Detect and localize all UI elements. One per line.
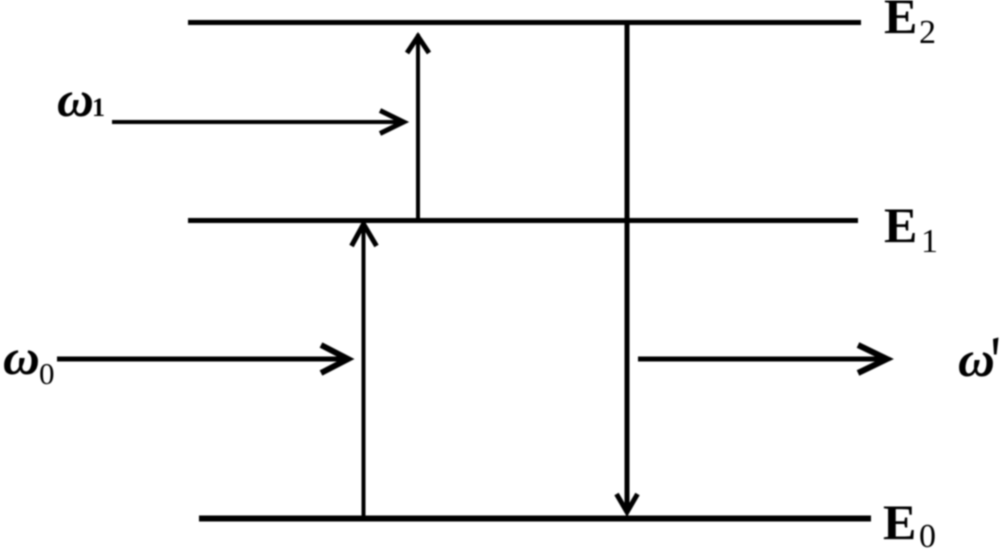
svg-text:1: 1 bbox=[92, 93, 105, 122]
arrowhead right omega0 bbox=[321, 345, 348, 373]
svg-text:2: 2 bbox=[919, 14, 936, 51]
svg-text:ω: ω bbox=[3, 330, 40, 386]
svg-text:E: E bbox=[884, 0, 917, 44]
wire: omega1 horizontal arrow shaft bbox=[112, 120, 401, 124]
level line E2 bbox=[188, 20, 861, 25]
svg-text:E: E bbox=[884, 197, 917, 253]
wire: omega-prime horizontal arrow shaft bbox=[638, 357, 883, 362]
wire: vertical up arrow shaft E0 to E1 bbox=[362, 226, 366, 517]
wire: vertical up arrow shaft E1 to E2 bbox=[416, 34, 420, 220]
svg-text:ω: ω bbox=[57, 72, 94, 128]
arrowhead up at E1 bbox=[352, 224, 377, 246]
arrowhead down at E0 bbox=[617, 494, 638, 512]
svg-text:0: 0 bbox=[39, 356, 55, 391]
wire: vertical down arrow shaft E2 to E0 bbox=[625, 24, 630, 509]
arrowhead right omega1 bbox=[380, 111, 404, 134]
arrowhead up at E2 bbox=[407, 37, 429, 54]
svg-text:1: 1 bbox=[921, 223, 938, 260]
arrowhead right omega-prime bbox=[858, 345, 887, 373]
svg-text:ω: ω bbox=[958, 332, 995, 388]
wire: omega0 horizontal arrow shaft bbox=[57, 357, 344, 362]
level line E1 bbox=[188, 218, 858, 223]
svg-text:0: 0 bbox=[919, 518, 936, 549]
level line E0 bbox=[199, 516, 871, 522]
svg-text:E: E bbox=[883, 494, 916, 549]
